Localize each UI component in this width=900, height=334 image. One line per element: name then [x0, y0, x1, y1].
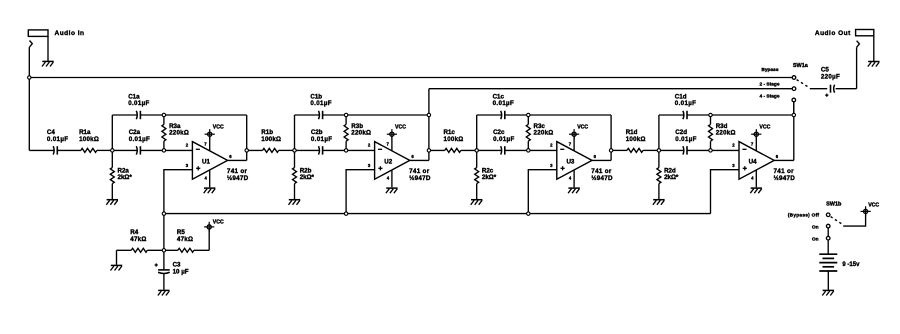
switch SW1a contact 2-stage [792, 87, 796, 91]
svg-text:100kΩ: 100kΩ [444, 136, 464, 143]
wire R3b bottom lead [345, 141, 347, 150]
junction R3c/inverting-input node [527, 149, 530, 152]
svg-text:220µF: 220µF [821, 73, 840, 80]
junction stage2 input node [293, 149, 296, 152]
junction C1c/R3c top node [527, 113, 530, 116]
wire U3 output to output node [592, 159, 611, 161]
svg-text:VCC: VCC [395, 125, 406, 131]
wire R2b bottom lead [294, 184, 296, 199]
svg-text:VCC: VCC [868, 202, 879, 208]
wire U4 output to output node [774, 159, 794, 161]
wire C2b to inverting input of U2 [323, 149, 375, 151]
junction C1b/R3b top node [344, 113, 347, 116]
wire out jack sleeve to ground [873, 36, 875, 61]
wire C2a to inverting input of U1 [141, 149, 193, 151]
wire R2d top lead [658, 150, 660, 167]
ground (audio out sleeve) [868, 61, 879, 63]
svg-text:220kΩ: 220kΩ [169, 130, 189, 137]
svg-text:0.01µF: 0.01µF [128, 100, 150, 107]
wire top branch junction to output corner [711, 114, 794, 116]
wire R4/R5 junction to C3 [163, 250, 165, 269]
svg-text:0.01µF: 0.01µF [311, 136, 333, 143]
svg-text:U3: U3 [566, 158, 574, 165]
wire R3a top lead [163, 115, 165, 124]
wire C1c to R3c top junction [505, 114, 528, 116]
wire C1d to R3d top junction [687, 114, 710, 116]
svg-text:0.01µF: 0.01µF [493, 136, 514, 143]
svg-text:100kΩ: 100kΩ [79, 136, 99, 143]
VCC symbol (U4 pin 7) [751, 133, 761, 135]
wire bias bus down to R4/R5 junction [163, 214, 165, 251]
wire pin 7 of U2 to VCC [391, 136, 393, 151]
wire R2c top lead [476, 150, 478, 167]
ground (audio in sleeve) [42, 60, 53, 62]
resistor R2a 2k [110, 168, 114, 184]
wire R3c top lead [527, 115, 529, 124]
wire stage4 input node to C2d [659, 149, 684, 151]
svg-text:47kΩ: 47kΩ [130, 236, 146, 243]
svg-text:10 µF: 10 µF [173, 268, 189, 275]
wire SW1a common to C5 [810, 88, 827, 90]
wire pin 4 of U1 to ground [209, 170, 211, 188]
svg-text:Bypass: Bypass [761, 67, 778, 73]
svg-text:On: On [812, 224, 819, 230]
op-amp U4 [739, 142, 774, 180]
resistor R2d 2k [657, 168, 661, 184]
op-amp U1 [192, 142, 227, 180]
wire R1d to stage4 input node [643, 149, 659, 151]
wire stage2 output vertical [428, 89, 430, 161]
wire R4/R5 junction to R4 [147, 249, 164, 251]
wire SW1b on contacts to battery [827, 226, 829, 254]
switch SW1b arm (dotted) [831, 217, 843, 225]
junction stage2 output node [427, 149, 430, 152]
junction R3d/inverting-input node [709, 149, 712, 152]
wire non-inverting input of U3 to bias bus [528, 170, 557, 214]
wire non-inverting input of U1 to bias bus [164, 170, 193, 214]
svg-text:VCC: VCC [759, 125, 770, 131]
switch SW1a contact 4-stage [792, 98, 796, 102]
junction R4/R5/C3 bias divider node [162, 249, 165, 252]
wire SW1b common to VCC [843, 214, 865, 227]
resistor R5 47k [178, 248, 194, 252]
wire R3a bottom lead [163, 141, 165, 150]
wire C1b to R3b top junction [323, 114, 346, 116]
VCC symbol (U1 pin 7) [205, 133, 215, 135]
switch SW1b contact off [826, 213, 830, 217]
junction 2-stage tap node [427, 113, 430, 116]
svg-text:U4: U4 [749, 158, 757, 165]
junction stage1 output node [245, 149, 248, 152]
capacitor C2b 0.01uF [318, 146, 321, 154]
ground (R4) [111, 264, 122, 266]
svg-text:9 -15v: 9 -15v [842, 262, 860, 268]
wire 2-stage tap (U2 output to SW1a) [429, 88, 792, 90]
capacitor C1c 0.01uF [500, 111, 503, 119]
svg-text:2kΩ*: 2kΩ* [300, 174, 315, 181]
wire stage1 input node up to top branch [111, 115, 113, 150]
resistor R3d 220k [709, 124, 713, 141]
svg-text:0.01µF: 0.01µF [310, 100, 332, 107]
wire C2c to inverting input of U3 [505, 149, 557, 151]
junction stage3 input node [475, 149, 478, 152]
svg-text:½947D: ½947D [409, 174, 431, 182]
wire stage1 output vertical [246, 115, 248, 160]
svg-text:2kΩ*: 2kΩ* [118, 174, 133, 181]
capacitor C1b 0.01uF [318, 111, 321, 119]
wire input node down to main line [28, 78, 30, 151]
wire U2 output to output node [410, 159, 429, 161]
wire output node to R1b [247, 149, 263, 151]
resistor R4 47k [131, 248, 147, 252]
capacitor C5 220uF [830, 85, 832, 93]
junction C1a/R3a top node [162, 113, 165, 116]
audio out jack J2 [856, 30, 874, 36]
resistor R1c 100k [445, 148, 461, 152]
resistor R3a 220k [162, 124, 166, 141]
wire top branch to C1d [659, 114, 684, 116]
wire pin 4 of U4 to ground [755, 170, 757, 188]
wire R3b top lead [345, 115, 347, 124]
wire stage4 output vertical [793, 100, 795, 160]
junction bias bus / stage3 non-inverting input [527, 212, 530, 215]
wire top branch junction to output corner [528, 114, 611, 116]
wire jack sleeve to ground [47, 36, 49, 61]
svg-text:½947D: ½947D [591, 174, 613, 182]
svg-text:47kΩ: 47kΩ [177, 236, 193, 243]
svg-text:½947D: ½947D [774, 174, 796, 182]
wire R1a to stage1 input node [97, 149, 113, 151]
ground (U2 pin 4) [386, 187, 397, 189]
svg-text:½947D: ½947D [227, 174, 249, 182]
svg-text:C3: C3 [173, 261, 181, 268]
capacitor C2c 0.01uF [500, 146, 503, 154]
resistor R2c 2k [475, 168, 479, 184]
capacitor C1a 0.01uF [135, 111, 138, 119]
wire output node to R1c [429, 149, 445, 151]
wire pin 7 of U1 to VCC [209, 136, 211, 151]
wire bias bus [164, 213, 711, 215]
wire non-inverting input of U2 to bias bus [346, 170, 375, 214]
wire R2a bottom lead [111, 184, 113, 199]
svg-text:0.01µF: 0.01µF [675, 136, 697, 143]
svg-text:0.01µF: 0.01µF [129, 136, 151, 143]
svg-text:2 - Stage: 2 - Stage [760, 81, 780, 87]
wire battery to ground [827, 271, 829, 290]
wire top branch to C1b [295, 114, 320, 116]
junction stage3 output node [609, 149, 612, 152]
svg-text:VCC: VCC [577, 125, 588, 131]
polarity + (C3) [155, 264, 158, 266]
switch SW1b contact on-2 [826, 236, 830, 240]
wire pin 7 of U3 to VCC [573, 136, 575, 151]
resistor R3c 220k [526, 124, 530, 141]
wire main line to C4 [29, 149, 53, 151]
switch SW1a contact bypass [792, 76, 796, 80]
junction input/bypass node [28, 76, 31, 79]
wire stage3 input node up to top branch [476, 115, 478, 150]
wire output node to R1d [611, 149, 627, 151]
junction stage4 input node [657, 149, 660, 152]
wire C5 to audio out jack [836, 88, 857, 90]
wire R2a top lead [111, 150, 113, 167]
svg-text:SW1a: SW1a [793, 63, 809, 69]
svg-text:VCC: VCC [213, 219, 224, 225]
resistor R1d 100k [627, 148, 643, 152]
wire non-inverting input of U4 to bias bus [711, 170, 740, 214]
junction bias bus / stage2 non-inverting input [344, 212, 347, 215]
resistor R2b 2k [293, 168, 297, 184]
junction bias bus / stage1 non-inverting input [162, 212, 165, 215]
wire bypass line (input node to SW1a bypass contact) [29, 77, 792, 79]
wire R5 to VCC [194, 249, 209, 251]
ground (U1 pin 4) [204, 187, 215, 189]
svg-text:0.01µF: 0.01µF [47, 136, 69, 143]
ground (C3) [158, 289, 169, 291]
polarity + (C5) [825, 94, 828, 96]
ground (R2c) [471, 199, 482, 201]
wire stage2 input node up to top branch [294, 115, 296, 150]
wire C1a to R3a top junction [141, 114, 164, 116]
wire top branch junction to output corner [164, 114, 247, 116]
svg-text:4 - Stage: 4 - Stage [760, 94, 780, 100]
wire stage1 input node to C2a [112, 149, 137, 151]
wire top branch to C1a [112, 114, 137, 116]
wire R3d top lead [710, 115, 712, 124]
svg-text:100kΩ: 100kΩ [626, 136, 646, 143]
wire pin 4 of U3 to ground [573, 170, 575, 188]
VCC symbol (U3 pin 7) [569, 133, 579, 135]
svg-text:U1: U1 [202, 158, 210, 165]
svg-text:U2: U2 [384, 158, 392, 165]
wire pin 4 of U2 to ground [391, 170, 393, 188]
resistor R1a 100k [81, 148, 97, 152]
wire top branch junction to output corner [346, 114, 429, 116]
svg-text:SW1b: SW1b [826, 202, 842, 208]
wire C3 to ground [163, 274, 165, 290]
switch SW1a arm (dotted) [797, 80, 810, 88]
wire stage4 input node up to top branch [658, 115, 660, 150]
svg-text:On: On [812, 236, 819, 242]
ground (U4 pin 4) [751, 187, 762, 189]
ground (R2d) [653, 199, 664, 201]
svg-text:(Bypass) Off: (Bypass) Off [788, 212, 820, 218]
wire C2d to inverting input of U4 [687, 149, 739, 151]
ground (U3 pin 4) [568, 187, 579, 189]
svg-text:220kΩ: 220kΩ [534, 130, 554, 137]
audio in jack J1 [28, 30, 48, 37]
op-amp U3 [557, 142, 592, 180]
junction R3a/inverting-input node [162, 149, 165, 152]
wire R2b top lead [294, 150, 296, 167]
resistor R1b 100k [263, 148, 279, 152]
wire stage3 input node to C2c [477, 149, 502, 151]
wire R1c to stage3 input node [461, 149, 477, 151]
wire R3d bottom lead [710, 141, 712, 150]
VCC symbol (SW1b) [861, 210, 871, 212]
switch SW1b contact on-1 [826, 224, 830, 228]
wire 4-stage contact to stage4 top junction [793, 100, 795, 115]
wire R4/R5 junction to R5 [164, 249, 178, 251]
svg-text:Audio Out: Audio Out [815, 30, 851, 37]
junction C1d/R3d top node [709, 113, 712, 116]
junction R3b/inverting-input node [344, 149, 347, 152]
wire stage3 output vertical [610, 115, 612, 160]
wire R1b to stage2 input node [279, 149, 295, 151]
capacitor C3 10uF [158, 269, 170, 271]
ground (R2a) [107, 199, 118, 201]
ground (battery) [823, 289, 834, 291]
svg-text:2kΩ*: 2kΩ* [482, 174, 497, 181]
resistor R3b 220k [344, 124, 348, 141]
wire R4 to ground drop [117, 249, 132, 251]
VCC symbol (R5) [204, 226, 214, 228]
op-amp U2 [375, 142, 410, 180]
svg-text:2kΩ*: 2kΩ* [664, 174, 679, 181]
wire U1 output to output node [228, 159, 247, 161]
wire top branch to C1c [477, 114, 502, 116]
capacitor C4 0.01uF [52, 146, 55, 154]
svg-text:0.01µF: 0.01µF [675, 100, 697, 107]
capacitor C2a 0.01uF [135, 146, 138, 154]
ground (R2b) [289, 199, 300, 201]
wire R2d bottom lead [658, 184, 660, 199]
svg-text:0.01µF: 0.01µF [493, 100, 514, 107]
VCC symbol (U2 pin 7) [387, 133, 397, 135]
junction stage1 input node [111, 149, 114, 152]
wire R3c bottom lead [527, 141, 529, 150]
svg-text:Audio In: Audio In [55, 30, 85, 37]
capacitor C1d 0.01uF [682, 111, 685, 119]
wire C4 to R1a [58, 149, 81, 151]
wire stage2 input node to C2b [295, 149, 320, 151]
wire R2c bottom lead [476, 184, 478, 199]
wire jack tip down to input node [28, 47, 30, 77]
battery B1 9-15v [819, 253, 837, 255]
junction 4-stage tap node [792, 113, 795, 116]
svg-text:220kΩ: 220kΩ [351, 130, 371, 137]
svg-text:100kΩ: 100kΩ [261, 136, 281, 143]
svg-text:220kΩ: 220kΩ [716, 130, 736, 137]
capacitor C2d 0.01uF [682, 146, 685, 154]
wire pin 7 of U4 to VCC [755, 136, 757, 151]
svg-text:VCC: VCC [213, 125, 224, 131]
